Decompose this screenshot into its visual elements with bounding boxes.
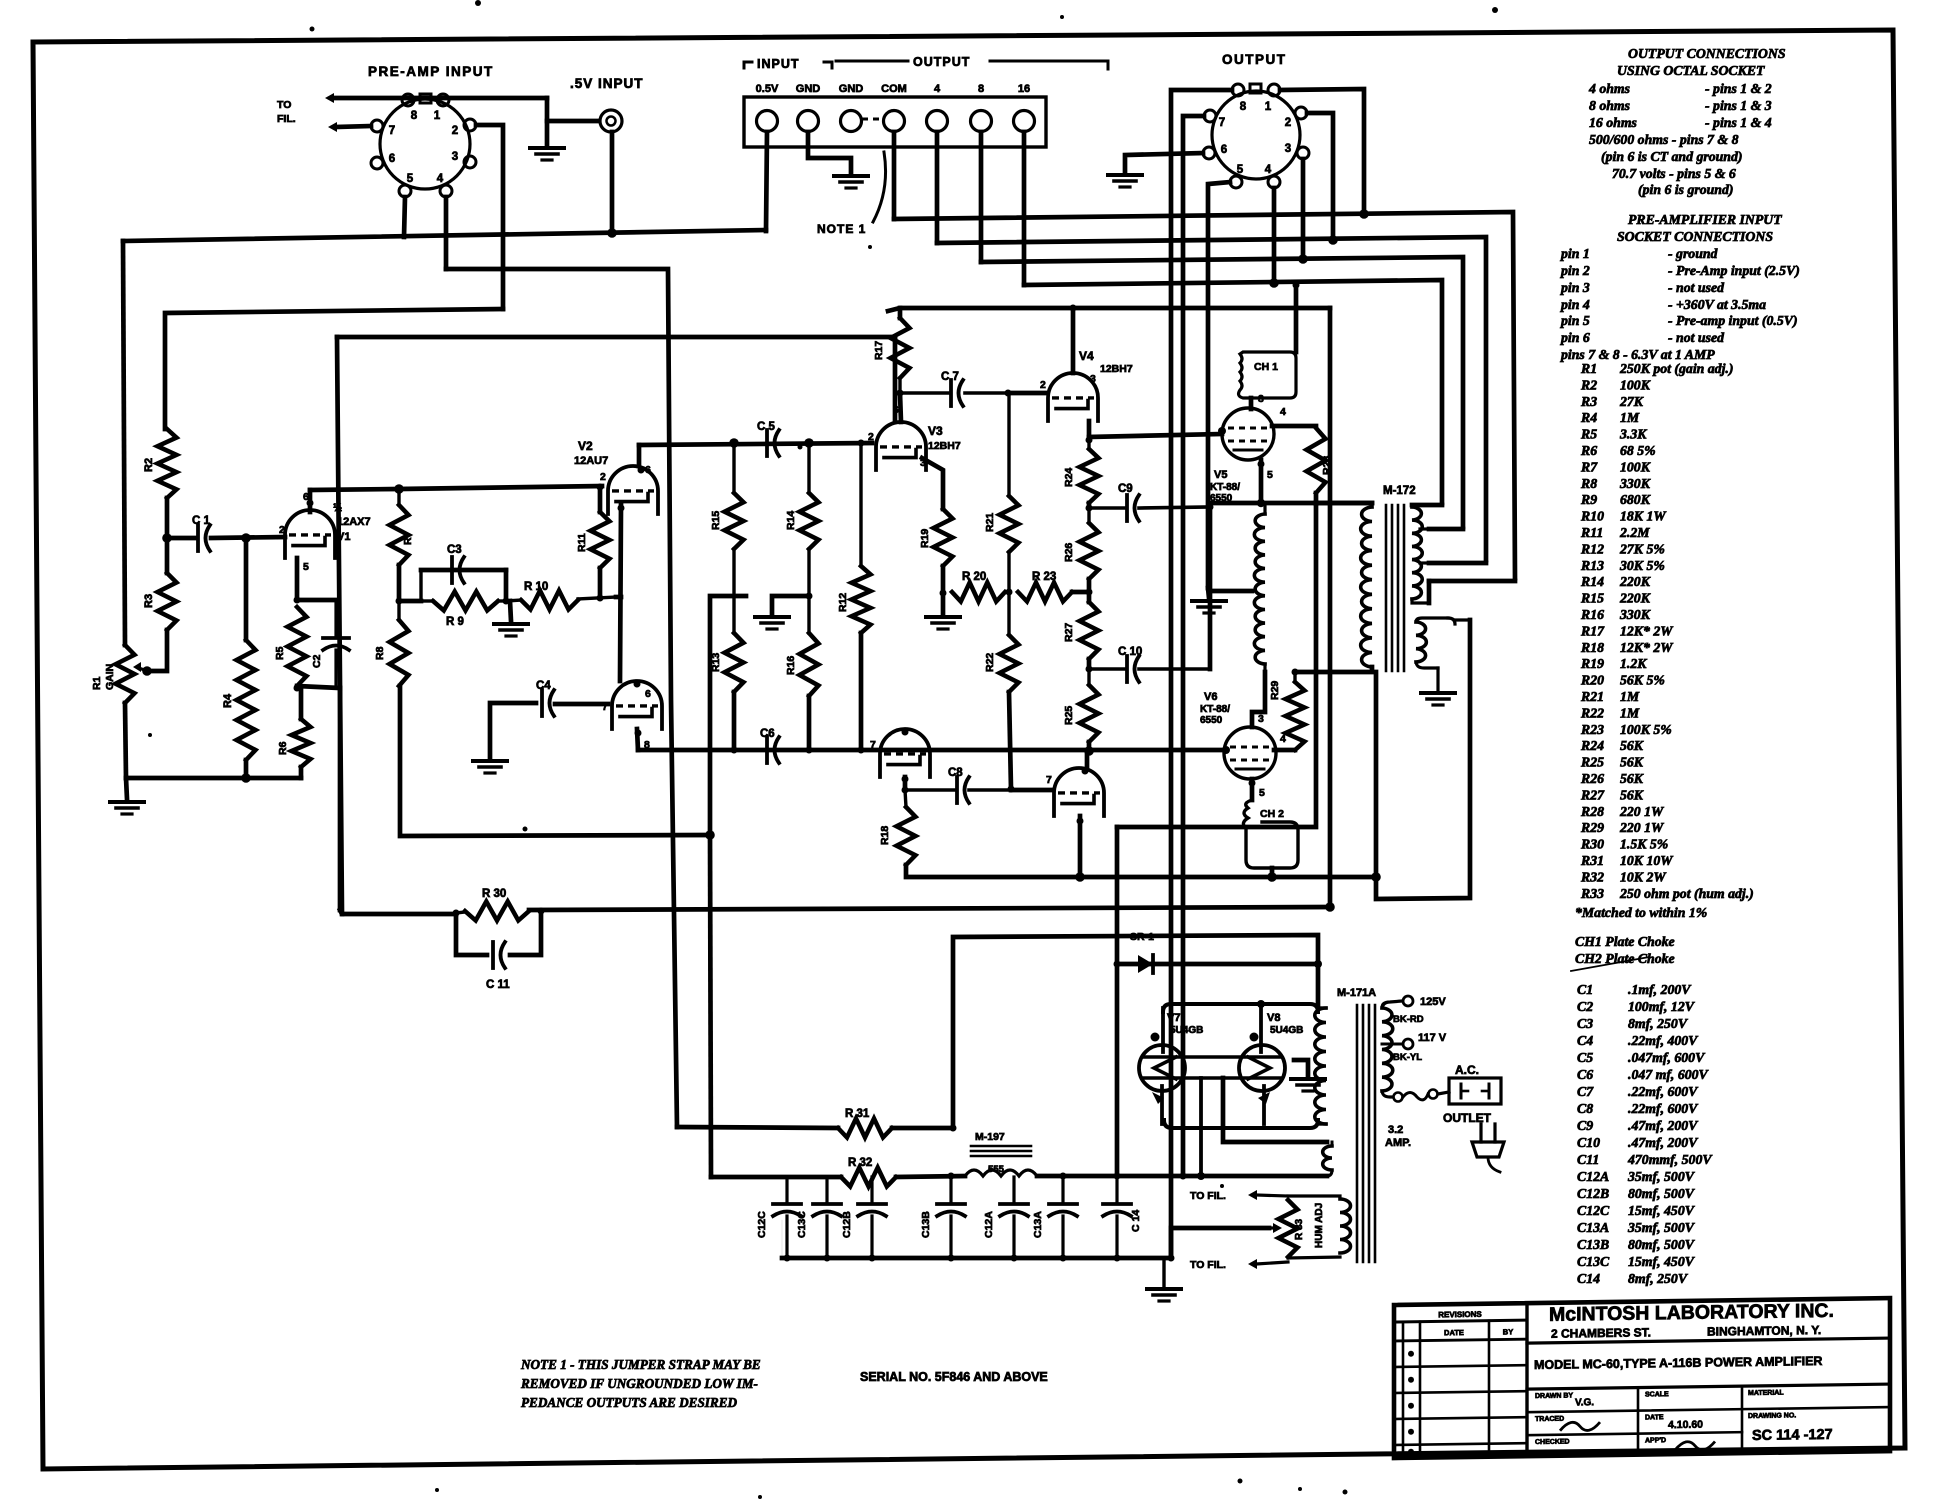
svg-text:DRAWN BY: DRAWN BY (1535, 1392, 1573, 1400)
svg-text:220K: 220K (1619, 591, 1651, 606)
svg-text:12BH7: 12BH7 (928, 440, 961, 452)
svg-text:C2: C2 (311, 654, 323, 668)
parts list C14 (1577, 1271, 1689, 1286)
resistor R3 (158, 573, 177, 630)
svg-text:C12A: C12A (983, 1211, 995, 1238)
junction ground bus C12B (869, 1255, 876, 1262)
label R1 GAIN (91, 664, 116, 690)
svg-text:2: 2 (279, 524, 285, 536)
svg-text:OUTPUT: OUTPUT (1222, 52, 1287, 67)
svg-text:1: 1 (1265, 101, 1272, 113)
parts list R26 (1580, 771, 1644, 786)
capacitor C7 (951, 380, 963, 406)
junction R31/riser (950, 1125, 957, 1132)
svg-text:C8: C8 (1577, 1101, 1593, 1116)
wire bus y337 right drop to V3 grid (893, 337, 898, 420)
svg-text:C3: C3 (1577, 1016, 1593, 1031)
output pin number 1 (1265, 101, 1272, 113)
wire output pin8 left-down (1171, 90, 1232, 1256)
svg-text:R7: R7 (402, 531, 414, 545)
parts list R27 (1580, 787, 1644, 802)
svg-text:TO FIL.: TO FIL. (1190, 1190, 1226, 1202)
wire V7 cathode stub (1152, 1086, 1164, 1124)
label C2 (311, 654, 323, 668)
triode V2b (12AU7 lower) (612, 681, 662, 729)
parts list R17 (1580, 623, 1674, 638)
svg-text:R12: R12 (1580, 541, 1604, 556)
svg-text:V5: V5 (1214, 469, 1227, 481)
label V2 12AU7 (574, 439, 608, 467)
ground (V2-V3 divider) (755, 617, 789, 629)
svg-text:PRE-AMPLIFIER INPUT: PRE-AMPLIFIER INPUT (1628, 212, 1782, 227)
wire L3 elbow (1429, 527, 1463, 532)
wire R2 to C1 junction (165, 498, 170, 538)
svg-text:- pins 1 & 2: - pins 1 & 2 (1705, 81, 1772, 96)
ground (output socket pin6) (1108, 175, 1142, 187)
wire L4 elbow to winding top (1412, 503, 1442, 508)
junction pin2/L2 (1328, 235, 1338, 245)
label C11 (486, 979, 510, 991)
label C13B (920, 1211, 932, 1238)
svg-text:- not used: - not used (1668, 330, 1725, 345)
label R15 (710, 511, 722, 530)
svg-text:4.10.60: 4.10.60 (1668, 1419, 1703, 1431)
svg-text:C10: C10 (1577, 1135, 1600, 1150)
wire C9-C10 bridge vertical (1208, 507, 1213, 669)
output conn line 500/600 (1589, 132, 1739, 147)
resistor R18 (897, 807, 916, 865)
wire R22 bottom to C8 node (1009, 692, 1011, 789)
socket J1 pin 4 (440, 185, 452, 197)
label R16 (785, 656, 797, 675)
resistor R19 (934, 509, 953, 566)
triode V1 (1/2 12AX7) (285, 510, 335, 558)
svg-text:.047 mf, 600V: .047 mf, 600V (1628, 1067, 1710, 1082)
svg-text:- pins 1 & 3: - pins 1 & 3 (1705, 98, 1772, 113)
svg-text:R25: R25 (1580, 755, 1604, 770)
svg-text:DRAWING NO.: DRAWING NO. (1748, 1412, 1796, 1420)
wire winding mid tap to ground (1209, 589, 1252, 594)
resistor R20 (horizontal) (952, 583, 1005, 602)
resistor R2 (158, 429, 177, 498)
wire V5 cathode down (1257, 460, 1265, 507)
pin number V6 pin4 (1280, 733, 1286, 745)
M-171A 5V winding (1340, 1196, 1351, 1253)
wire COM terminal down (892, 132, 897, 219)
wire C3 top branch (421, 568, 506, 573)
M-171A 6.3V winding (1323, 1142, 1332, 1176)
svg-text:OUTPUT CONNECTIONS: OUTPUT CONNECTIONS (1628, 46, 1786, 61)
svg-text:AMP.: AMP. (1385, 1137, 1411, 1149)
junction ground bus C12A (1011, 1255, 1018, 1262)
parts list R21 (1580, 689, 1640, 704)
wire wiper to ground bus (1171, 1228, 1269, 1258)
label C14 (1130, 1210, 1142, 1232)
svg-text:HUM ADJ: HUM ADJ (1314, 1203, 1325, 1248)
socket J1 pin 7 (371, 120, 383, 132)
svg-text:680K: 680K (1620, 492, 1651, 507)
wire R18 bottom / bias bus (906, 865, 1376, 877)
pin number 7 (389, 125, 395, 137)
svg-text:REVISIONS: REVISIONS (1438, 1310, 1482, 1320)
pin number 6 (389, 153, 395, 165)
wire V7 plate stub (1151, 1008, 1164, 1052)
parts list R14 (1580, 574, 1651, 589)
wire V2a cathode down (618, 505, 625, 682)
svg-text:C13C: C13C (1577, 1254, 1610, 1269)
capacitor C8 (957, 777, 969, 803)
junction B+/R30 line (1325, 902, 1335, 912)
pin number V2a plate (638, 464, 652, 476)
title block group (1394, 1298, 1890, 1458)
wire C5 bus (V2 plate to V3 grid) (639, 443, 872, 445)
heading USING OCTAL SOCKET (1617, 63, 1765, 78)
wire pin5 down (404, 197, 405, 237)
svg-text:2: 2 (452, 125, 458, 137)
svg-text:220 1W: 220 1W (1619, 820, 1665, 835)
wire 16-ohm terminal down (1022, 132, 1027, 285)
parts list R18 (1580, 640, 1674, 655)
wire x1117 vertical (R28 loop to C14) (1115, 827, 1120, 1172)
svg-text:.22mf, 400V: .22mf, 400V (1628, 1033, 1699, 1048)
svg-text:125V: 125V (1420, 996, 1446, 1008)
wire C7 leads (900, 391, 1008, 395)
pin number V5 cathode 5 (1267, 469, 1273, 481)
resistor R4 (237, 640, 256, 760)
pin number V5 pin4 (1280, 406, 1286, 418)
wire pin2 right-down (476, 125, 503, 309)
junction plate/C7 (897, 390, 904, 397)
label V4 type (1100, 363, 1133, 375)
junction C5 bus/R15 (729, 438, 739, 448)
pin number V5 plate 3 (1258, 393, 1264, 405)
resistor R8 (390, 601, 409, 686)
svg-text:R31: R31 (1580, 853, 1604, 868)
capacitor C12B (858, 1177, 886, 1258)
junction R23/R26/R27 (1086, 589, 1093, 596)
label C9 (1118, 483, 1133, 495)
svg-text:pin 2: pin 2 (1560, 263, 1590, 278)
capacitor C4 (542, 690, 554, 716)
svg-text:56K: 56K (1620, 738, 1644, 753)
potentiometer R33 (hum adj) (1279, 1200, 1298, 1257)
resistor R23 (horizontal) (1018, 583, 1072, 602)
beam tetrode V5 (KT-88/6550) (1222, 408, 1274, 460)
serial number text (860, 1370, 1048, 1384)
label CH1 (1254, 361, 1278, 373)
output socket pin 1 (1268, 84, 1280, 96)
svg-text:.47mf, 200V: .47mf, 200V (1628, 1118, 1699, 1133)
wire V4a plate up (1070, 305, 1077, 374)
junction R24/C9 (1086, 505, 1093, 512)
svg-text:R12: R12 (837, 593, 849, 612)
R33 wiper arrow (1269, 1223, 1282, 1233)
pin list pin 6 (1560, 330, 1725, 345)
parts list R10 (1580, 509, 1667, 524)
capacitor C3 loop left (419, 570, 422, 601)
svg-text:NOTE 1: NOTE 1 (817, 222, 866, 236)
svg-text:7: 7 (602, 701, 608, 713)
triode V4a (12BH7) (1048, 373, 1098, 421)
wire R12 top (858, 440, 865, 567)
wire winding bottom to V6 (1252, 672, 1265, 727)
svg-text:2: 2 (1285, 117, 1291, 129)
label R25 (1063, 706, 1075, 725)
wire ground bus stem (1162, 1258, 1165, 1286)
terminal GND (839, 83, 864, 132)
label R24 (1063, 468, 1075, 487)
label R13 (710, 653, 722, 672)
svg-text:pin 6: pin 6 (1560, 330, 1590, 345)
socket J1 pin 2 (464, 119, 476, 131)
choke M-197 (965, 1146, 1037, 1176)
svg-text:330K: 330K (1619, 476, 1651, 491)
scan speck marks (148, 0, 1498, 1499)
beam tetrode V6 (KT-88/6550) (1224, 727, 1276, 779)
output conn line 16 ohms (1589, 115, 1772, 130)
70V winding (M-172) (1416, 618, 1455, 662)
wire R12 bottom to C6 bus (858, 633, 865, 754)
capacitor C10 (1127, 656, 1139, 682)
wire CH1 top to pin4 bus (1294, 285, 1299, 352)
svg-text:1M: 1M (1620, 689, 1640, 704)
parts list C1 (1577, 982, 1692, 997)
wire R18 top (905, 790, 906, 807)
secondary tap 4-ohm (1420, 561, 1429, 564)
svg-text:30K 5%: 30K 5% (1619, 558, 1665, 573)
svg-text:C8: C8 (948, 767, 963, 779)
label R20 (962, 571, 986, 583)
svg-text:80mf, 500V: 80mf, 500V (1628, 1186, 1696, 1201)
ground (transformer shield) (1291, 1060, 1325, 1091)
wire CH1 to V5 plate (1249, 398, 1254, 409)
wire C12C corner (781, 1220, 783, 1258)
label V8 5U4GB (1267, 1012, 1303, 1036)
wire R10 stubs (506, 597, 616, 601)
pin number 3 (452, 151, 458, 163)
svg-text:SR-1: SR-1 (1130, 931, 1154, 943)
svg-text:(pin 6 is ground): (pin 6 is ground) (1638, 182, 1733, 198)
junction bias bus/CH2 (1267, 872, 1277, 882)
parts list R29 (1580, 820, 1665, 835)
svg-text:KT-88/: KT-88/ (1210, 482, 1240, 493)
wire riser continues to R32 corner (710, 835, 711, 1177)
pin number V3b plate (902, 729, 909, 736)
label R33 (1294, 1218, 1305, 1240)
svg-text:220K: 220K (1619, 574, 1651, 589)
svg-text:C12C: C12C (1577, 1203, 1610, 1218)
terminal strip (speaker barrier) (744, 97, 1046, 147)
parts list R3 (1580, 394, 1644, 409)
svg-text:C2: C2 (1577, 999, 1593, 1014)
wire SR-1 bus (1117, 962, 1318, 967)
svg-text:V.G.: V.G. (1575, 1397, 1594, 1408)
output pin number 7 (1219, 117, 1225, 129)
svg-text:6: 6 (645, 688, 651, 700)
svg-text:2.2M: 2.2M (1619, 525, 1650, 540)
note 1 text (520, 1357, 761, 1410)
wire V8 plate stub (1250, 1000, 1266, 1052)
label V1 12AX7 (333, 502, 371, 543)
svg-text:6550: 6550 (1200, 715, 1223, 726)
junction ground bus C13B (948, 1255, 955, 1262)
svg-text:R18: R18 (879, 826, 891, 845)
svg-text:3: 3 (452, 151, 458, 163)
wire R23 right to R26 node (1072, 590, 1089, 595)
svg-text:V6: V6 (1204, 691, 1217, 703)
label BK-YL (1393, 1052, 1422, 1063)
label C12C (756, 1211, 768, 1238)
svg-text:3: 3 (1285, 143, 1291, 155)
pin number V1 cathode 5 (303, 561, 309, 573)
AC outlet box (1449, 1078, 1501, 1104)
junction pin4/L4 (1269, 278, 1279, 288)
svg-text:SCALE: SCALE (1645, 1391, 1669, 1398)
svg-text:C13A: C13A (1032, 1211, 1044, 1238)
pin number V2a grid (600, 471, 606, 483)
parts list R19 (1580, 656, 1647, 671)
rectifier V8 (5U4GB) (1239, 1045, 1285, 1091)
svg-text:R27: R27 (1580, 787, 1605, 802)
svg-text:C7: C7 (1577, 1084, 1594, 1099)
svg-text:CHECKED: CHECKED (1535, 1439, 1570, 1446)
junction R28/cathode wire (1313, 500, 1320, 507)
resistor R30 (horizontal) (465, 902, 529, 921)
parts list R9 (1580, 492, 1651, 507)
svg-text:SERIAL NO. 5F846 AND ABOVE: SERIAL NO. 5F846 AND ABOVE (860, 1370, 1048, 1384)
label R30 (482, 888, 506, 900)
label R9 (446, 616, 464, 628)
svg-text:3: 3 (1090, 373, 1096, 385)
svg-text:BINGHAMTON, N. Y.: BINGHAMTON, N. Y. (1707, 1323, 1821, 1339)
pin list pin 3 (1560, 280, 1725, 295)
svg-text:R30: R30 (1580, 837, 1604, 852)
label M-197 555 (988, 1164, 1005, 1175)
label R32 (848, 1157, 872, 1169)
capacitor C5 (767, 430, 779, 456)
svg-text:R18: R18 (1580, 640, 1604, 655)
svg-text:4: 4 (934, 83, 941, 95)
svg-text:- Pre-Amp input (2.5V): - Pre-Amp input (2.5V) (1668, 263, 1800, 279)
label SR-1 (1130, 931, 1154, 943)
parts list R5 (1580, 427, 1647, 442)
terminal COM (881, 83, 907, 132)
ground (filter bank) (1147, 1289, 1181, 1301)
svg-text:100K: 100K (1620, 459, 1651, 474)
svg-text:70.7 volts - pins 5 & 6: 70.7 volts - pins 5 & 6 (1612, 166, 1736, 181)
parts list C3 (1577, 1016, 1689, 1031)
label R26 (1063, 543, 1075, 562)
junction filter bus C13B (948, 1173, 955, 1180)
junction R7/R8/C3 (396, 598, 403, 605)
output conn line 4 ohms (1588, 81, 1772, 96)
transformer M-171A core (1357, 1005, 1375, 1262)
wire L3 8-ohm run (981, 257, 1463, 527)
label V7 5U4GB (1167, 1012, 1203, 1036)
svg-text:R 20: R 20 (962, 571, 986, 583)
wire C7 to V4 grid (1008, 391, 1046, 396)
ground (input jack) (530, 145, 564, 160)
svg-text:C12B: C12B (1577, 1186, 1609, 1201)
wire bus1 corner down (left feed) (123, 241, 125, 645)
parts list R11 (1580, 525, 1650, 540)
svg-text:8mf, 250V: 8mf, 250V (1628, 1016, 1689, 1031)
junction C1/R4 (241, 533, 251, 543)
svg-text:R 23: R 23 (1032, 571, 1056, 583)
svg-text:100K: 100K (1620, 377, 1651, 392)
output socket pin 5 (1230, 176, 1242, 188)
wire C3 loop right (504, 570, 509, 601)
pin list pins 7 & 8 (1560, 347, 1715, 362)
svg-text:pin 3: pin 3 (1560, 280, 1590, 295)
output conn line 70.7 (1612, 166, 1736, 181)
svg-text:COM: COM (881, 83, 907, 95)
svg-text:56K 5%: 56K 5% (1620, 673, 1665, 688)
wire L4 16-ohm run (1024, 280, 1442, 503)
label R7 (402, 531, 414, 545)
pin number V4a cathode 3 (1090, 373, 1096, 385)
potentiometer R1 (gain) (116, 645, 135, 703)
wire R8 bottom long run (400, 686, 710, 836)
ground (V1 input rail) (110, 802, 144, 814)
svg-text:5: 5 (407, 173, 414, 185)
svg-text:R8: R8 (374, 646, 386, 660)
svg-text:4: 4 (437, 173, 444, 185)
pin number V4b plate (1082, 768, 1089, 775)
junction bias bus/V4b cathode (1075, 872, 1085, 882)
wire output pin7 left-down (1183, 116, 1204, 1176)
svg-text:SC 114 -127: SC 114 -127 (1752, 1427, 1833, 1444)
wire output pin6 to ground (1125, 153, 1203, 172)
svg-text:R5: R5 (274, 646, 286, 660)
svg-text:7: 7 (870, 739, 876, 751)
pin list pin 4 (1560, 297, 1766, 312)
power transformer M-171A HV winding (1315, 1008, 1326, 1124)
label R23 (1032, 571, 1056, 583)
coil cathode winding (M-172 unity coupling) (1254, 505, 1265, 672)
svg-text:TO FIL.: TO FIL. (1190, 1259, 1226, 1271)
resistor R27 (1080, 602, 1099, 659)
label R11 (576, 533, 588, 552)
svg-text:NOTE 1 - THIS JUMPER STRAP MAY: NOTE 1 - THIS JUMPER STRAP MAY BE (520, 1357, 761, 1372)
junction R19/R20 (940, 590, 947, 597)
svg-text:R17: R17 (873, 341, 885, 360)
wire V1 plate up (307, 490, 314, 512)
label R10 (524, 581, 548, 593)
wire R31 to loop riser (892, 1126, 953, 1131)
fuse link terminals (1394, 1090, 1438, 1102)
wire 70V top loop (1455, 618, 1470, 621)
pin number V1 grid 2 (279, 524, 285, 536)
parts list C8 (1577, 1101, 1699, 1116)
junction cathode bus/C9 riser (1207, 504, 1214, 511)
svg-text:C1: C1 (1577, 982, 1593, 997)
svg-text:220 1W: 220 1W (1619, 804, 1665, 819)
svg-text:OUTLET: OUTLET (1443, 1111, 1492, 1125)
svg-text:5U4GB: 5U4GB (1170, 1025, 1203, 1036)
junction ground bus C12C (784, 1255, 791, 1262)
svg-text:DATE: DATE (1444, 1328, 1464, 1337)
wire C1 to V1 grid (211, 537, 285, 538)
output socket pin 2 (1295, 107, 1307, 119)
output socket key notch (1250, 84, 1261, 93)
svg-text:PEDANCE OUTPUTS ARE DESIRED: PEDANCE OUTPUTS ARE DESIRED (521, 1395, 738, 1410)
parts list CH2 (1575, 951, 1675, 966)
label M-172 (1383, 485, 1416, 497)
wire to AC outlet (1438, 1092, 1449, 1094)
svg-text:R17: R17 (1580, 623, 1605, 638)
svg-text:R23: R23 (1580, 722, 1604, 737)
